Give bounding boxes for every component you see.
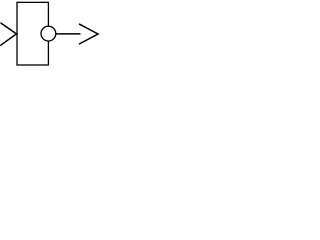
output arrow bbox=[80, 24, 99, 44]
inversion bubble bbox=[41, 26, 56, 41]
block body bbox=[17, 2, 48, 65]
output wire bbox=[56, 33, 81, 35]
input arrow bbox=[1, 23, 17, 45]
